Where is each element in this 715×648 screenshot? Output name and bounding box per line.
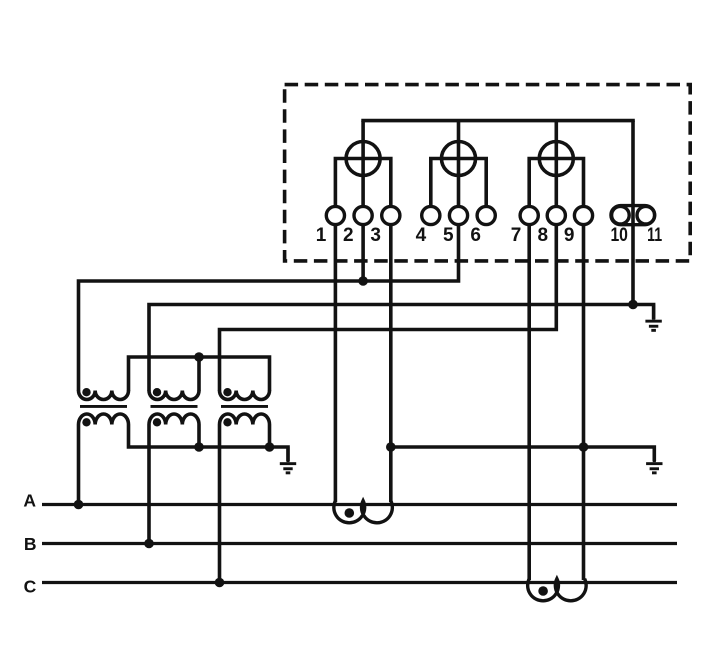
meter enclosure (dashed box) [285, 85, 691, 261]
wire: terminal 7 down to CT2 secondary left [527, 225, 531, 581]
junction: terminal 3 lead on CT ground bus [386, 442, 396, 452]
junction: PT1 primary on phase A [74, 500, 84, 510]
wire: phase-C voltage line (PT3 secondary to terminal 8) [220, 225, 557, 392]
junction: PT2 primary on star bus [194, 442, 204, 452]
ground: CT secondary earth [646, 447, 662, 474]
ground: PT primary star earth [280, 447, 296, 474]
wire: PT3 primary right lead [268, 425, 272, 448]
junction: PT2 secondary on star bus [194, 352, 204, 362]
svg-text:B: B [24, 534, 37, 554]
terminal 6 [477, 206, 495, 224]
terminal 4 [422, 206, 440, 224]
svg-text:1: 1 [316, 225, 327, 246]
wire: phase-B voltage line (PT2 secondary to neutral node) [149, 305, 654, 392]
svg-text:7: 7 [511, 225, 522, 246]
svg-text:10: 10 [610, 225, 628, 246]
terminal 9 [574, 206, 592, 224]
wire: element 3 current link (terminal 7 to terminal 9) [529, 159, 583, 206]
terminal 10-11 shorting link (stadium) [611, 206, 655, 225]
svg-text:5: 5 [443, 225, 454, 246]
wire: PT3 primary left lead to phase C [218, 425, 222, 584]
wire: element 3 vertical (bus to terminal 8) [554, 121, 558, 206]
wire: element 2 current link (terminal 4 to terminal 6) [431, 159, 486, 206]
measuring element W2 [442, 142, 476, 176]
measuring element W1 [346, 142, 380, 176]
svg-text:3: 3 [370, 225, 381, 246]
svg-text:11: 11 [647, 225, 662, 246]
measuring element W3 [539, 142, 573, 176]
svg-text:8: 8 [538, 225, 549, 246]
junction: terminal 9 lead on CT ground bus [579, 442, 589, 452]
transformer PT3 [220, 388, 270, 426]
wire: terminal 1 down to CT1 secondary left [334, 225, 338, 503]
wire: CT secondary common ground bus [391, 447, 655, 461]
wire: PT2 secondary right lead [197, 357, 201, 391]
wire: top voltage bus inside meter [363, 121, 633, 122]
wire: element 1 current link (terminal 1 to terminal 3) [335, 159, 390, 206]
terminal 8 [547, 206, 565, 224]
phase line C [42, 581, 677, 584]
svg-text:4: 4 [416, 225, 427, 246]
wire: PT secondary star bus [129, 357, 270, 391]
junction: PT2 primary on phase B [144, 539, 154, 549]
terminal 2 [354, 206, 372, 224]
phase line A [42, 503, 677, 506]
current transformer CT1 on phase A [334, 501, 393, 523]
wire: terminal 3 down to CT1 secondary right [389, 225, 393, 503]
svg-text:6: 6 [470, 225, 481, 246]
svg-text:2: 2 [343, 225, 354, 246]
terminal 7 [520, 206, 538, 224]
svg-text:C: C [24, 576, 37, 596]
phase line B [42, 542, 677, 545]
wire: PT2 primary left lead to phase B [147, 425, 151, 545]
current transformer CT2 on phase C [528, 579, 587, 601]
wire: element 1 vertical (bus to terminal 2) [361, 121, 365, 206]
junction: PT3 primary on star bus [265, 442, 275, 452]
terminal 5 [449, 206, 467, 224]
terminal 10 [612, 206, 630, 224]
wire: phase-A voltage line (PT1 secondary to terminals 2 and 5) [79, 225, 459, 392]
transformer PT1 [79, 388, 129, 426]
svg-text:A: A [23, 491, 36, 511]
terminal 11 [637, 206, 655, 224]
wire: element 2 vertical (bus to terminal 5) [457, 121, 461, 206]
wire: PT1 primary left lead to phase A [77, 425, 81, 506]
wire: terminal 2 stub down to phase-A voltage line [361, 225, 365, 282]
wire: neutral lead from bus through 10-11 link down to node N [631, 121, 635, 305]
wire: PT2 primary right lead [197, 425, 201, 448]
transformer PT2 [149, 388, 199, 426]
terminal 3 [382, 206, 400, 224]
svg-text:9: 9 [564, 225, 575, 246]
junction: neutral node N [628, 300, 638, 310]
ground: voltage-circuit earth at neutral node [645, 305, 661, 332]
terminal 1 [326, 206, 344, 224]
wire: terminal 9 down to CT2 secondary right [582, 225, 586, 581]
junction: PT3 primary on phase C [215, 578, 225, 588]
wire: PT primary star bus [129, 425, 289, 462]
junction: terminal 2 tap on phase-A voltage line [358, 276, 368, 286]
